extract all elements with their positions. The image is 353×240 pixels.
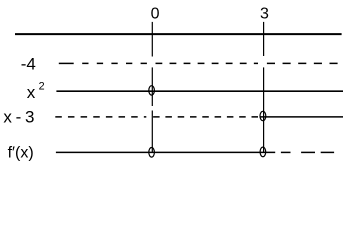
svg-text:x - 3: x - 3 — [3, 108, 34, 127]
svg-text:f′(x): f′(x) — [8, 145, 34, 162]
svg-text:2: 2 — [39, 80, 45, 92]
svg-text:-4: -4 — [21, 55, 36, 74]
svg-text:x: x — [27, 83, 36, 102]
svg-text:0: 0 — [151, 6, 160, 23]
svg-text:3: 3 — [260, 5, 269, 22]
